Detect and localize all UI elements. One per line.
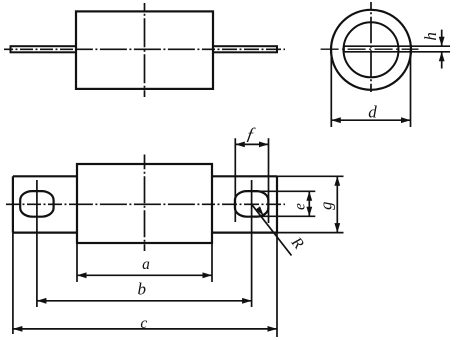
svg-text:ƒ: ƒ [245,124,257,144]
svg-text:b: b [138,280,147,299]
svg-text:g: g [317,202,336,210]
svg-text:a: a [142,256,150,273]
svg-text:d: d [368,103,377,122]
svg-text:e: e [292,203,309,210]
svg-text:c: c [140,315,147,332]
svg-text:R: R [287,233,307,252]
svg-text:h: h [421,32,440,41]
